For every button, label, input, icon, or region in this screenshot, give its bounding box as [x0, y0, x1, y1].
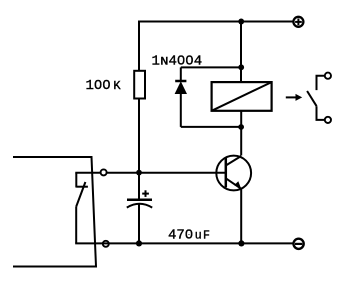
svg-text:100K: 100K	[86, 78, 122, 94]
svg-text:470uF: 470uF	[168, 227, 210, 243]
svg-text:1N4004: 1N4004	[152, 54, 203, 70]
